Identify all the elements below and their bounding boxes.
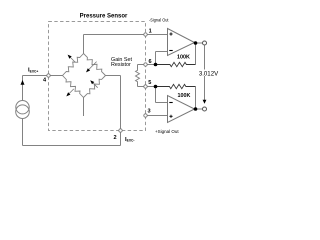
svg-text:3.012V: 3.012V [199,70,219,77]
svg-text:100K: 100K [177,54,190,60]
svg-text:IEXC-: IEXC- [125,137,135,143]
svg-text:100K: 100K [178,93,191,99]
svg-text:Pressure Sensor: Pressure Sensor [80,13,128,19]
svg-text:3: 3 [147,108,150,114]
svg-text:6: 6 [148,59,151,65]
svg-text:IEXC+: IEXC+ [28,68,38,74]
svg-text:+Signal Out: +Signal Out [155,129,179,134]
svg-text:-Signal Out: -Signal Out [149,17,169,22]
svg-text:5: 5 [148,80,151,86]
svg-text:2: 2 [113,135,116,141]
svg-text:1: 1 [149,28,152,34]
svg-text:Resistor: Resistor [111,62,131,68]
